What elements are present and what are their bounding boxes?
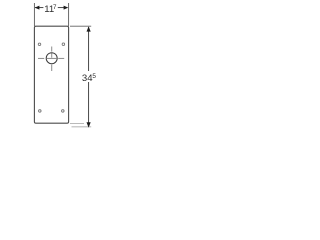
extension line top (right dimension) [70,25,91,27]
large hole [46,53,57,64]
extension line bottom from plate [70,123,84,125]
centerline horizontal left dash [38,57,44,59]
hole bottom-right [62,110,65,113]
centerline vertical inner dash [51,53,53,58]
centerline horizontal inner dash [47,57,56,59]
dimension line 34 5/8 upper segment [88,27,90,71]
plate outline [34,26,68,123]
dimension line 34 5/8 lower segment [88,82,90,126]
svg-text:7: 7 [53,4,57,11]
dimension line 11 7/8 right segment [58,7,64,9]
extension line right (top dimension) [68,3,70,26]
centerline vertical bottom dash [51,65,53,71]
arrowhead down [87,122,91,127]
extension line bottom at arrow [72,126,92,128]
hole top-right [62,43,65,46]
centerline horizontal right dash [58,57,64,59]
hole top-left [38,43,41,46]
centerline vertical top dash [51,47,53,52]
extension line left (top dimension) [33,3,35,26]
arrowhead up [87,26,91,31]
dimension line 11 7/8 left segment [35,7,43,9]
arrowhead left [35,6,40,10]
svg-text:5: 5 [92,73,96,80]
hole bottom-left [39,110,42,113]
arrowhead right [64,6,69,10]
